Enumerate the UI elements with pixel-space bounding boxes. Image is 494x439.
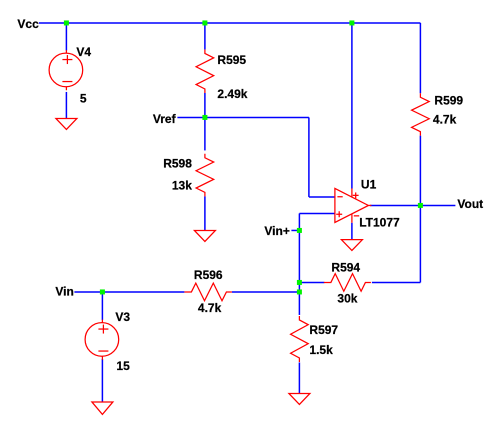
- instance name R594: [331, 260, 360, 274]
- wire op-amp V+ supply from rail: [351, 23, 353, 189]
- voltage source V3: [85, 320, 119, 360]
- svg-text:Vout: Vout: [457, 197, 483, 211]
- ground below V3: [92, 402, 113, 415]
- wire R595 top: [204, 23, 206, 50]
- svg-text:13k: 13k: [172, 179, 192, 193]
- ground below R597: [289, 393, 310, 404]
- svg-text:2.49k: 2.49k: [217, 87, 247, 101]
- svg-text:Vin: Vin: [55, 284, 73, 298]
- resistor R599: [412, 93, 430, 135]
- svg-text:Vcc: Vcc: [17, 17, 39, 31]
- wire bend down to inverting input: [308, 117, 310, 197]
- ground op-amp V-: [341, 240, 362, 251]
- resistor R595: [196, 49, 214, 92]
- svg-text:R598: R598: [163, 156, 192, 170]
- node Vcc-R595: [202, 20, 207, 25]
- wire Vref node to bend: [205, 116, 309, 118]
- value 2.49k of R595: [217, 87, 247, 101]
- instance name R599: [434, 93, 463, 107]
- wire V4 bottom to ground: [65, 92, 67, 119]
- wire op-amp V- supply to ground: [351, 223, 353, 240]
- svg-text:V4: V4: [76, 45, 91, 59]
- instance name V3: [115, 310, 130, 324]
- wire R599 bottom to output node: [419, 136, 421, 206]
- net label Vin: [55, 284, 73, 298]
- wire non-inverting input horizontal: [299, 212, 335, 214]
- node Vcc-V4: [64, 20, 69, 25]
- net label Vout: [457, 197, 483, 211]
- wire R596 to junction column: [232, 291, 300, 293]
- wire Vref label stub: [177, 116, 205, 118]
- resistor R596: [184, 283, 232, 301]
- wire V3 bottom to ground: [101, 359, 103, 402]
- net label Vref: [153, 112, 177, 126]
- svg-text:15: 15: [116, 359, 130, 373]
- svg-text:R596: R596: [194, 268, 223, 282]
- wire Vin+ label stub: [291, 229, 299, 231]
- svg-text:R594: R594: [331, 260, 360, 274]
- value 13k of R598: [172, 179, 192, 193]
- node Vref: [202, 115, 207, 120]
- wire V4 top: [65, 23, 67, 51]
- node R596 junction: [297, 289, 302, 294]
- wire vertical junction column: [298, 213, 300, 315]
- resistor R597: [291, 316, 309, 362]
- value 5 of V4: [80, 91, 87, 105]
- wire op-amp output to Vout label: [370, 204, 456, 206]
- instance name R597: [309, 323, 338, 337]
- wire into op-amp inverting input: [309, 196, 335, 198]
- svg-text:4.7k: 4.7k: [198, 301, 222, 315]
- svg-text:R597: R597: [309, 323, 338, 337]
- value LT1077 of U1: [359, 215, 400, 229]
- net label Vin+: [264, 224, 289, 238]
- instance name V4: [76, 45, 91, 59]
- instance name U1: [361, 177, 377, 191]
- wire Vcc rail: [39, 22, 421, 24]
- node R594 junction: [297, 280, 302, 285]
- resistor R594: [324, 274, 371, 292]
- instance name R598: [163, 156, 192, 170]
- svg-text:5: 5: [80, 91, 87, 105]
- ground below V4: [56, 118, 77, 129]
- svg-text:Vin+: Vin+: [264, 224, 289, 238]
- svg-text:LT1077: LT1077: [359, 215, 400, 229]
- wire R598 top: [204, 117, 206, 150]
- value 4.7k of R596: [198, 301, 222, 315]
- wire R597 bottom to ground: [298, 362, 300, 393]
- node Vcc-opamp supply: [349, 20, 354, 25]
- wire V3 top: [101, 292, 103, 320]
- svg-text:4.7k: 4.7k: [433, 112, 457, 126]
- value 4.7k of R599: [433, 112, 457, 126]
- instance name R595: [217, 53, 246, 67]
- wire Vin to R596: [74, 291, 184, 293]
- wire R598 bottom to ground: [204, 196, 206, 230]
- net label Vcc: [17, 17, 39, 31]
- svg-text:R599: R599: [434, 93, 463, 107]
- svg-text:30k: 30k: [337, 291, 357, 305]
- node Vout: [418, 203, 423, 208]
- svg-text:1.5k: 1.5k: [309, 343, 333, 357]
- svg-text:U1: U1: [361, 177, 377, 191]
- resistor R598: [196, 154, 214, 197]
- ground below R598: [194, 230, 215, 241]
- svg-text:V3: V3: [115, 310, 130, 324]
- wire Vcc rail right drop to R599: [419, 23, 421, 93]
- node Vin: [100, 289, 105, 294]
- value 15 of V3: [116, 359, 130, 373]
- wire R594 left lead to node: [299, 281, 324, 283]
- svg-text:Vref: Vref: [153, 112, 177, 126]
- wire output node down to R594: [419, 205, 421, 282]
- svg-text:R595: R595: [217, 53, 246, 67]
- voltage source V4: [49, 50, 83, 90]
- node Vin+ tap: [297, 228, 302, 233]
- wire R594 right lead to feedback: [372, 281, 421, 283]
- instance name R596: [194, 268, 223, 282]
- wire R595 bottom to Vref node: [204, 93, 206, 118]
- op-amp U1 LT1077: [335, 188, 372, 222]
- value 1.5k of R597: [309, 343, 333, 357]
- value 30k of R594: [337, 291, 357, 305]
